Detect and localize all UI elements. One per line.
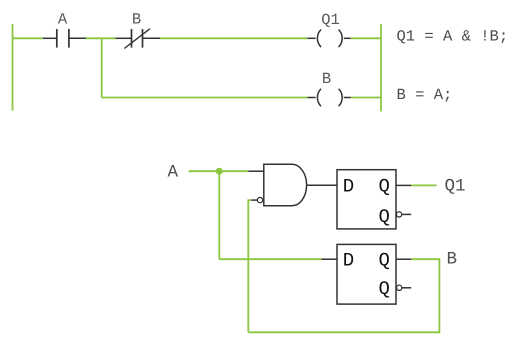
svg-text:Q1: Q1 [321, 11, 340, 29]
svg-text:D: D [343, 175, 354, 197]
svg-text:B: B [447, 250, 458, 270]
svg-text:Q: Q [379, 249, 390, 271]
svg-text:Q: Q [379, 206, 390, 228]
svg-text:B: B [322, 70, 331, 88]
svg-text:Q1: Q1 [445, 176, 466, 196]
svg-text:B = A;: B = A; [397, 86, 453, 104]
svg-text:Q: Q [379, 278, 390, 300]
svg-text:Q: Q [379, 175, 390, 197]
svg-text:A: A [168, 163, 179, 183]
svg-text:Q1 = A & !B;: Q1 = A & !B; [397, 27, 509, 45]
svg-text:D: D [343, 249, 354, 271]
svg-text:B: B [132, 11, 141, 29]
svg-text:A: A [58, 11, 68, 29]
